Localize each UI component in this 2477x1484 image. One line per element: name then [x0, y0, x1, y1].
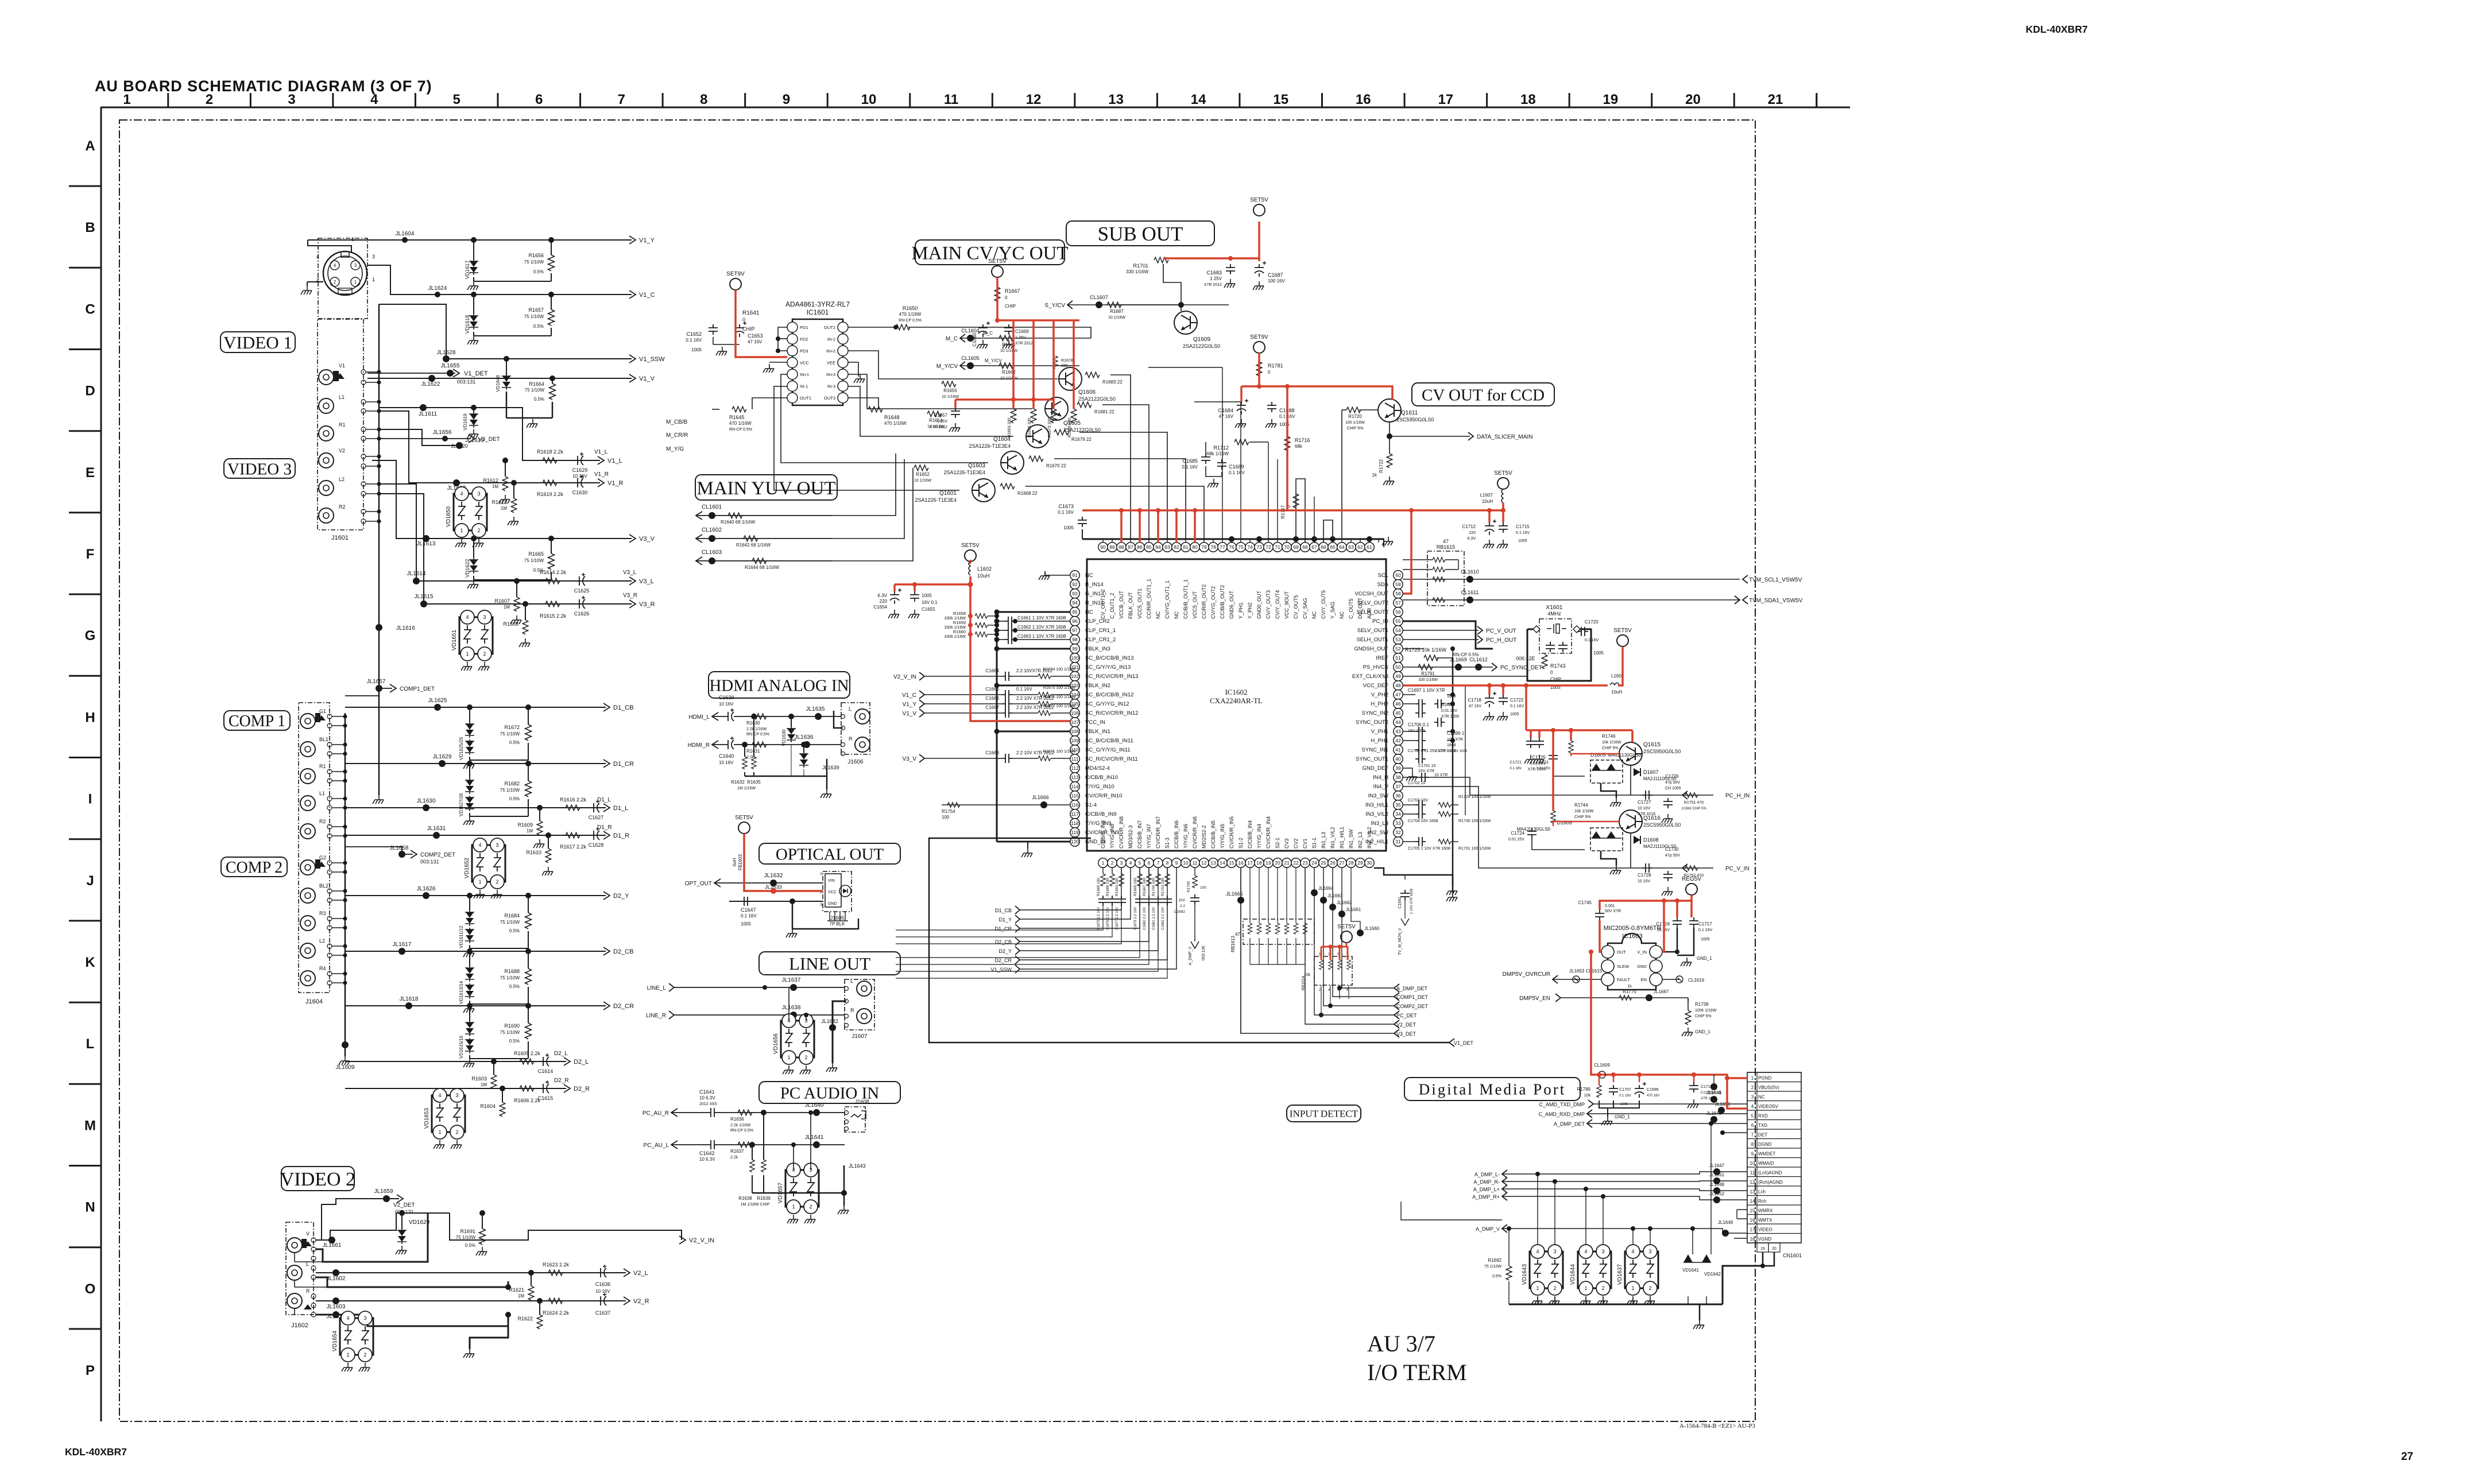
svg-text:CHIP: CHIP — [1005, 304, 1016, 309]
svg-text:61: 61 — [1367, 544, 1372, 550]
svg-text:SC_B/C/CB/B_IN12: SC_B/C/CB/B_IN12 — [1085, 692, 1133, 698]
svg-text:RXD: RXD — [1758, 1114, 1768, 1119]
svg-text:C1679 2.2 10V: C1679 2.2 10V — [1134, 907, 1137, 930]
svg-text:R1657: R1657 — [528, 307, 544, 313]
svg-text:C1697 1 10V X7R: C1697 1 10V X7R — [1408, 688, 1445, 693]
svg-text:CHIP 5%: CHIP 5% — [1695, 1014, 1712, 1018]
jack L1 — [300, 796, 315, 811]
svg-text:VCC_9OUT: VCC_9OUT — [1284, 591, 1290, 619]
svg-text:FB1603: FB1603 — [738, 854, 743, 870]
svg-text:HDMI_R: HDMI_R — [688, 742, 710, 749]
svg-text:C1664: C1664 — [985, 668, 999, 673]
clamp diodes VD1615/16 R1690 — [467, 1003, 473, 1009]
svg-text:PGND: PGND — [1758, 1076, 1771, 1081]
svg-text:SC_G/Y/Y/G_IN11: SC_G/Y/Y/G_IN11 — [1085, 747, 1131, 753]
svg-text:JL1652: JL1652 — [1709, 1191, 1725, 1196]
svg-text:D2_CR: D2_CR — [994, 958, 1012, 963]
svg-text:220: 220 — [880, 599, 888, 604]
svg-text:RN-CP 0.5%: RN-CP 0.5% — [730, 1129, 753, 1133]
svg-text:45: 45 — [1395, 710, 1401, 716]
svg-text:MD3/S2-3: MD3/S2-3 — [1128, 825, 1133, 848]
svg-text:CHIP 5%: CHIP 5% — [1574, 815, 1591, 819]
svg-text:R1682: R1682 — [504, 781, 520, 786]
svg-text:DMP5V_EN: DMP5V_EN — [1519, 995, 1550, 1002]
svg-text:4: 4 — [346, 1315, 349, 1321]
svg-text:2.2k 1/16W: 2.2k 1/16W — [746, 727, 767, 731]
svg-text:2: 2 — [496, 879, 498, 885]
GND_DEF pin stub — [1403, 768, 1412, 772]
transistor Q1604 — [1026, 425, 1049, 448]
svg-text:4MHz: 4MHz — [1547, 611, 1561, 617]
svg-text:0.01 25V: 0.01 25V — [1441, 709, 1457, 713]
svg-text:2.2k 1/16W: 2.2k 1/16W — [730, 1123, 751, 1127]
svg-text:A_DMP_R+: A_DMP_R+ — [1472, 1194, 1500, 1200]
svg-text:1005: 1005 — [691, 347, 702, 352]
svg-text:JL1640: JL1640 — [805, 1102, 824, 1109]
svg-text:V1_R: V1_R — [607, 480, 624, 487]
svg-text:28: 28 — [1348, 860, 1354, 866]
svg-text:X7R 2012: X7R 2012 — [1015, 342, 1033, 346]
svg-text:50V X7R: 50V X7R — [1605, 909, 1621, 913]
svg-text:D1_L: D1_L — [613, 805, 628, 812]
svg-text:COMP1_DET: COMP1_DET — [400, 686, 435, 692]
VGND row18 + pins19/20 down wires — [1734, 1238, 1747, 1239]
svg-text:J: J — [86, 873, 94, 889]
svg-text:DMP5V_OVRCUR: DMP5V_OVRCUR — [1503, 971, 1550, 978]
svg-text:100k 1/16W: 100k 1/16W — [1695, 1009, 1717, 1013]
svg-text:75 1/10W: 75 1/10W — [500, 788, 520, 793]
svg-text:75 1/10W: 75 1/10W — [500, 975, 520, 981]
jack BL1 — [300, 742, 315, 757]
connector CN1601 table — [1747, 1072, 1801, 1243]
wire TVM_SCL1 — [1403, 579, 1740, 580]
svg-text:1: 1 — [820, 872, 822, 876]
wire V2_R — [316, 1300, 626, 1301]
wire D2_Y — [345, 895, 606, 896]
svg-text:75 1/10W: 75 1/10W — [525, 388, 545, 393]
svg-text:JL1653: JL1653 — [1569, 968, 1585, 974]
svg-text:CL1611: CL1611 — [1461, 590, 1479, 595]
svg-text:D1_R: D1_R — [613, 832, 629, 839]
wire D2_CR — [345, 1005, 606, 1006]
stubs from bus to every top pin — [1102, 539, 1104, 543]
svg-text:VD1625/26: VD1625/26 — [459, 737, 464, 760]
svg-text:VD1644: VD1644 — [1570, 1264, 1576, 1285]
svg-text:C1614: C1614 — [538, 1068, 554, 1074]
svg-text:JL1642: JL1642 — [821, 1018, 838, 1024]
svg-text:PC_SYNC_DET: PC_SYNC_DET — [1500, 665, 1542, 671]
wire D2_L — [345, 1061, 566, 1062]
svg-text:R4: R4 — [319, 966, 326, 971]
svg-text:1k: 1k — [1372, 472, 1377, 478]
svg-text:V1_R: V1_R — [594, 471, 609, 478]
svg-text:IN1_V/L2: IN1_V/L2 — [1330, 827, 1336, 848]
svg-text:63: 63 — [1348, 544, 1354, 550]
svg-text:3: 3 — [820, 903, 822, 907]
svg-text:C/CB/B_IN7: C/CB/B_IN7 — [1137, 820, 1143, 848]
svg-text:40: 40 — [1395, 756, 1401, 762]
svg-text:D1605: D1605 — [1590, 752, 1606, 758]
svg-text:10V: 10V — [1178, 898, 1185, 902]
svg-text:JL1602: JL1602 — [327, 1276, 346, 1282]
svg-text:IN+3: IN+3 — [826, 372, 835, 377]
svg-text:2: 2 — [206, 92, 213, 107]
vertical bus right of J1601 — [378, 304, 380, 643]
svg-text:VD1630: VD1630 — [781, 729, 787, 746]
svg-text:C1684: C1684 — [1218, 408, 1233, 413]
svg-text:CV/Y_OUT3: CV/Y_OUT3 — [1265, 590, 1271, 619]
transistor Q1609 — [1174, 311, 1197, 334]
svg-text:IN1_SW: IN1_SW — [1348, 829, 1354, 848]
IC1602 top pins 90..61 — [1098, 543, 1108, 552]
svg-text:11: 11 — [1193, 860, 1198, 866]
svg-text:E: E — [86, 465, 95, 481]
label COMP 1 — [224, 711, 290, 730]
svg-text:C1663 1 10V X7R 1608: C1663 1 10V X7R 1608 — [1017, 634, 1066, 639]
svg-text:6: 6 — [535, 92, 543, 107]
svg-text:C1653: C1653 — [748, 333, 763, 339]
svg-text:10: 10 — [1750, 1161, 1755, 1166]
svg-text:C1665: C1665 — [985, 687, 999, 692]
svg-text:470 16V: 470 16V — [1647, 1094, 1659, 1098]
svg-text:JL1604: JL1604 — [396, 231, 415, 237]
svg-text:R1623 2.2k: R1623 2.2k — [543, 1262, 570, 1268]
svg-text:PC_AU_R: PC_AU_R — [643, 1110, 669, 1117]
caps C1654 C1655 — [890, 588, 901, 604]
jack R1 — [319, 426, 334, 441]
svg-text:C1626: C1626 — [574, 611, 590, 617]
svg-text:SC_R/CV/CR/R_IN12: SC_R/CV/CR/R_IN12 — [1085, 710, 1138, 716]
svg-text:G_IN14: G_IN14 — [1085, 591, 1104, 597]
svg-text:S1-4: S1-4 — [1085, 802, 1097, 808]
svg-text:10 1/16W: 10 1/16W — [1000, 349, 1017, 353]
svg-text:109: 109 — [1071, 738, 1079, 743]
caps C1661-C1663 to pins 96-98 — [997, 621, 1005, 622]
svg-text:R1730 100 1/16W: R1730 100 1/16W — [1458, 819, 1491, 823]
svg-text:1M: 1M — [518, 1293, 524, 1299]
svg-text:CLP_CR1_2: CLP_CR1_2 — [1085, 637, 1116, 643]
svg-text:R1688: R1688 — [504, 968, 520, 974]
svg-text:4: 4 — [466, 614, 469, 620]
svg-text:10 1/16W: 10 1/16W — [914, 479, 931, 483]
svg-text:(Lch)AGND: (Lch)AGND — [1758, 1171, 1782, 1176]
svg-text:92: 92 — [1072, 582, 1078, 587]
power SET9V — [730, 278, 741, 290]
svg-text:108: 108 — [1071, 729, 1079, 734]
Q1616 cluster — [1619, 810, 1642, 833]
svg-text:JL1625: JL1625 — [428, 698, 447, 704]
svg-text:19: 19 — [1760, 1247, 1765, 1251]
svg-text:46: 46 — [1395, 701, 1401, 707]
svg-text:TXD: TXD — [1758, 1123, 1767, 1128]
svg-text:1M: 1M — [527, 828, 533, 834]
svg-text:2: 2 — [455, 1129, 458, 1135]
svg-text:D1606: D1606 — [1557, 820, 1572, 826]
wire D1_L — [345, 807, 606, 808]
svg-text:470 1/16W: 470 1/16W — [729, 421, 752, 426]
label CV OUT for CCD — [1412, 383, 1554, 406]
svg-text:R1693 100: R1693 100 — [1115, 878, 1119, 896]
svg-text:D2_Y: D2_Y — [998, 948, 1012, 954]
transistor Q1606 — [1059, 367, 1082, 390]
svg-text:J1605: J1605 — [830, 915, 845, 921]
svg-text:C1625: C1625 — [574, 588, 590, 594]
ruler top line — [100, 107, 1850, 109]
svg-text:1: 1 — [1536, 1285, 1539, 1291]
svg-text:3: 3 — [1553, 1249, 1556, 1254]
svg-text:IN3_L3: IN3_L3 — [1371, 820, 1388, 827]
svg-text:65: 65 — [1330, 544, 1336, 550]
svg-text:SET5V: SET5V — [735, 815, 753, 821]
jack R4 — [300, 971, 315, 986]
svg-text:54: 54 — [1395, 627, 1401, 633]
svg-text:M_Y/G: M_Y/G — [666, 446, 684, 452]
svg-text:Q1603: Q1603 — [968, 463, 985, 469]
IC1602 left pins 91..120 — [1070, 571, 1079, 580]
clamp VD1619 — [471, 405, 477, 410]
svg-text:R1604: R1604 — [480, 1103, 496, 1109]
C1716 C1717 — [1673, 917, 1682, 928]
svg-text:R1613: R1613 — [491, 499, 507, 505]
svg-text:0.1 16V: 0.1 16V — [686, 338, 702, 343]
wire V3_R — [379, 494, 632, 604]
svg-text:R1712: R1712 — [1213, 445, 1229, 451]
loop pins 66-65 — [1323, 520, 1333, 543]
svg-text:R1619 2.2k: R1619 2.2k — [537, 491, 564, 497]
svg-text:CHIP: CHIP — [742, 326, 755, 332]
PC_V_OUT — [1403, 630, 1479, 631]
IN3 caps + resistors — [1415, 800, 1426, 809]
svg-text:C1715: C1715 — [1516, 524, 1530, 529]
svg-text:1005: 1005 — [1701, 937, 1710, 941]
svg-text:87: 87 — [1128, 544, 1133, 550]
svg-text:L1607: L1607 — [1480, 493, 1493, 498]
svg-text:0.5%: 0.5% — [509, 984, 520, 989]
svg-text:R1644 68 1/16W: R1644 68 1/16W — [745, 565, 779, 570]
svg-text:JL1639: JL1639 — [822, 765, 839, 770]
jack L2 — [300, 943, 315, 958]
svg-text:44: 44 — [1395, 719, 1401, 725]
svg-text:C1707 0.1 16V 1005: C1707 0.1 16V 1005 — [1435, 750, 1468, 753]
svg-text:113: 113 — [1071, 774, 1079, 780]
clamp diodes VD1627/28 R1682 — [467, 761, 473, 766]
svg-text:VIDEO5V: VIDEO5V — [1758, 1104, 1778, 1109]
PC_H_OUT — [1403, 639, 1479, 640]
svg-text:003:131: 003:131 — [420, 859, 439, 865]
clamp diodes VD1613/14 R1688 — [467, 948, 473, 954]
svg-text:VD1653: VD1653 — [424, 1107, 430, 1129]
red drop to pin58 — [1403, 510, 1411, 594]
wire V1_DET — [367, 373, 455, 374]
svg-text:4: 4 — [334, 263, 336, 268]
svg-text:47p 50V: 47p 50V — [1665, 854, 1680, 858]
svg-text:DGND: DGND — [1758, 1142, 1772, 1147]
svg-text:10: 10 — [861, 92, 877, 107]
VD1630 VD1633 clamps — [788, 714, 794, 719]
svg-text:5: 5 — [453, 92, 460, 107]
svg-text:SELV_OUT2: SELV_OUT2 — [1357, 600, 1388, 606]
svg-text:10 6.3V: 10 6.3V — [699, 1095, 715, 1101]
svg-text:18: 18 — [1256, 860, 1262, 866]
svg-text:R1744: R1744 — [1574, 803, 1588, 808]
svg-text:JL1636: JL1636 — [795, 734, 814, 741]
svg-text:R1664: R1664 — [529, 381, 544, 387]
svg-text:VCC5_OUT: VCC5_OUT — [1192, 591, 1198, 619]
D1607 diode — [1634, 768, 1640, 776]
svg-text:GND_1: GND_1 — [1615, 1114, 1630, 1119]
svg-text:C1707: C1707 — [1619, 1088, 1631, 1092]
svg-text:1M: 1M — [501, 506, 507, 511]
svg-text:56: 56 — [1395, 609, 1401, 615]
label LINE OUT — [759, 952, 900, 975]
C1673 cap — [1078, 517, 1087, 527]
transistor Q1605 — [1045, 397, 1068, 420]
caps C1683 C1687 — [1226, 264, 1235, 274]
svg-text:C1661 1 10V X7R 1608: C1661 1 10V X7R 1608 — [1017, 615, 1066, 621]
red SET5V L1607 — [1497, 478, 1509, 489]
svg-text:R1655: R1655 — [943, 388, 957, 393]
svg-text:Q1601: Q1601 — [939, 490, 957, 497]
label SUB OUT — [1066, 221, 1214, 246]
svg-text:H: H — [85, 710, 95, 725]
svg-text:80: 80 — [1192, 544, 1198, 550]
small pins below J1605 — [829, 912, 830, 921]
svg-text:OUT1: OUT1 — [800, 396, 811, 401]
svg-text:C/CB//B_IN9: C/CB//B_IN9 — [1085, 811, 1116, 817]
svg-text:JL1646: JL1646 — [1706, 1111, 1722, 1116]
svg-text:VD1617: VD1617 — [465, 261, 470, 280]
svg-text:TV_M_MON_V: TV_M_MON_V — [1398, 928, 1402, 955]
svg-text:2: 2 — [1553, 1285, 1556, 1291]
svg-text:VIDEO 1: VIDEO 1 — [223, 332, 292, 352]
svg-text:VIDEO 3: VIDEO 3 — [227, 460, 292, 478]
bus ground — [378, 643, 380, 795]
svg-text:R1738: R1738 — [1695, 1002, 1709, 1007]
svg-text:GND0_OUT: GND0_OUT — [1256, 590, 1262, 619]
svg-text:VCC: VCC — [828, 890, 837, 894]
svg-text:GND_IN: GND_IN — [1085, 839, 1106, 845]
svg-text:R2: R2 — [319, 819, 326, 824]
svg-text:0.1 16V: 0.1 16V — [1510, 767, 1522, 770]
IN4_H->PC_H_IN wire — [1403, 777, 1713, 795]
svg-text:47 16V: 47 16V — [748, 339, 763, 344]
svg-text:V_IN: V_IN — [1637, 950, 1647, 955]
svg-text:84: 84 — [1155, 544, 1161, 550]
svg-text:8: 8 — [700, 92, 707, 107]
svg-text:10 16V: 10 16V — [719, 702, 734, 707]
svg-text:1: 1 — [372, 277, 375, 282]
svg-text:VCC: VCC — [800, 361, 809, 366]
svg-text:CL1604: CL1604 — [961, 328, 980, 334]
svg-text:Y/Y/G_IN10: Y/Y/G_IN10 — [1085, 784, 1114, 790]
svg-text:SET9V: SET9V — [1250, 334, 1268, 340]
svg-text:21: 21 — [1768, 92, 1783, 107]
svg-text:FAULT: FAULT — [1617, 977, 1630, 982]
svg-text:7: 7 — [618, 92, 625, 107]
svg-text:V2_DET: V2_DET — [1396, 1022, 1416, 1028]
svg-text:V1_V: V1_V — [639, 375, 655, 382]
svg-text:R1622: R1622 — [517, 1316, 533, 1322]
svg-text:O: O — [85, 1281, 96, 1297]
svg-text:18: 18 — [1750, 1237, 1755, 1242]
svg-text:NC: NC — [1155, 611, 1161, 619]
svg-text:19: 19 — [1603, 92, 1619, 107]
JL1619 wire — [379, 429, 459, 445]
svg-text:AU 3/7: AU 3/7 — [1367, 1331, 1435, 1357]
svg-text:NC: NC — [1174, 611, 1179, 619]
svg-text:C1727: C1727 — [1638, 800, 1651, 805]
svg-text:R1671 100 1/16W: R1671 100 1/16W — [1043, 750, 1076, 754]
svg-text:V2_L: V2_L — [633, 1270, 648, 1277]
svg-text:VD1654: VD1654 — [332, 1330, 338, 1351]
svg-text:CV/Y_OUT5: CV/Y_OUT5 — [1321, 590, 1326, 619]
Q1615 cluster — [1619, 742, 1642, 765]
svg-text:R1624 2.2k: R1624 2.2k — [543, 1310, 570, 1316]
svg-text:V1_DET: V1_DET — [464, 370, 488, 377]
svg-text:R1722: R1722 — [1379, 459, 1384, 472]
dets joining resistor pack — [1321, 997, 1322, 1015]
svg-text:RN-CP 0.5%: RN-CP 0.5% — [899, 319, 922, 323]
jack R2 — [300, 824, 315, 839]
label VIDEO 2 — [281, 1167, 354, 1191]
svg-text:C_AMD_RXD_DMP: C_AMD_RXD_DMP — [1538, 1111, 1585, 1117]
svg-text:1005: 1005 — [1063, 525, 1074, 530]
svg-text:OPTICAL OUT: OPTICAL OUT — [776, 845, 884, 863]
svg-text:R1607: R1607 — [494, 598, 510, 604]
jack BL2 — [300, 888, 315, 903]
svg-text:P: P — [86, 1363, 95, 1378]
DMP gnd bus — [1509, 1304, 1723, 1305]
svg-text:43: 43 — [1395, 729, 1401, 734]
COMP1_DET wire — [345, 688, 392, 696]
svg-text:117: 117 — [1071, 811, 1079, 817]
svg-text:R1676 100 1/16W: R1676 100 1/16W — [1043, 695, 1076, 699]
svg-text:SET9V: SET9V — [726, 271, 745, 277]
svg-text:CC/B/B_OUT1_1: CC/B/B_OUT1_1 — [1183, 579, 1189, 619]
svg-text:4: 4 — [1536, 1249, 1539, 1254]
svg-text:6: 6 — [1751, 1123, 1754, 1128]
svg-text:C1669: C1669 — [1015, 329, 1029, 334]
svg-text:Q1609: Q1609 — [1193, 336, 1210, 343]
svg-text:C1720: C1720 — [1585, 619, 1599, 625]
C1657 cap — [951, 408, 960, 418]
svg-text:V3_V: V3_V — [903, 756, 917, 762]
svg-text:COMP 2: COMP 2 — [226, 859, 282, 877]
wire D1_R — [345, 835, 606, 836]
svg-text:99: 99 — [1072, 646, 1078, 652]
power SET5V sub — [1253, 204, 1265, 216]
svg-text:L1602: L1602 — [977, 566, 992, 572]
svg-text:NC: NC — [1085, 609, 1093, 615]
svg-text:23: 23 — [1302, 860, 1308, 866]
svg-text:C1666: C1666 — [985, 696, 999, 701]
svg-text:90: 90 — [1100, 544, 1106, 550]
svg-text:4: 4 — [1631, 1249, 1634, 1254]
svg-text:GND_DEF: GND_DEF — [1363, 765, 1389, 772]
svg-text:R1632: R1632 — [731, 780, 745, 785]
svg-text:R1729 100 1/16W: R1729 100 1/16W — [1458, 795, 1491, 799]
svg-text:BL2: BL2 — [319, 883, 328, 889]
svg-text:C1667: C1667 — [985, 705, 999, 710]
jack L1 — [319, 398, 334, 413]
power SET5V optical — [738, 822, 750, 834]
black bus above IC pins — [1082, 538, 1384, 540]
svg-text:12: 12 — [1201, 860, 1207, 866]
svg-text:V1_Y: V1_Y — [903, 702, 917, 708]
svg-text:A_DMP_V: A_DMP_V — [1476, 1226, 1500, 1232]
wire V1_V — [367, 378, 632, 379]
CL lines extend to feedback — [833, 454, 896, 516]
